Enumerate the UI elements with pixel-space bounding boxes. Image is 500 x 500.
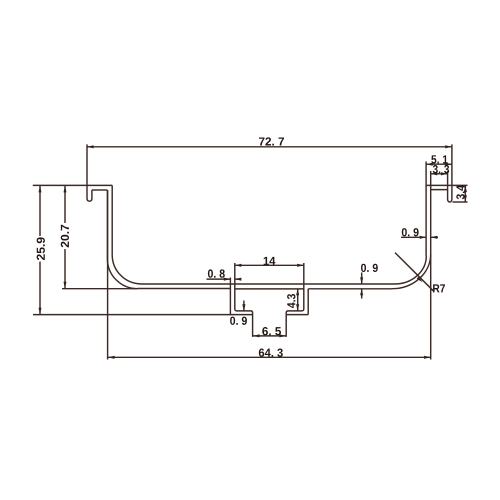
profile outline xyxy=(33,144,468,359)
text 20.7 (rotated) xyxy=(61,225,69,248)
R7 leader xyxy=(395,253,434,292)
4.3 xyxy=(297,289,299,311)
pocket left wall inner face + floor top left + opening left edge (6.5 ext below) xyxy=(235,263,253,337)
14 arrows xyxy=(235,264,242,267)
extension lines xyxy=(33,185,138,288)
web bottom (right of pocket) xyxy=(308,288,392,290)
left wall outer 64.3 extension xyxy=(107,190,109,360)
20.7 xyxy=(64,186,66,289)
3.4 arrows xyxy=(464,185,467,192)
text 5.1 xyxy=(431,155,447,163)
left wall inner face + inner curve xyxy=(112,185,141,284)
0.8 xyxy=(207,278,241,280)
left wall outer face + bottom-left outer curve xyxy=(107,190,137,289)
floor bottom left + 25.9 bottom extension xyxy=(33,314,253,316)
3.3 xyxy=(431,173,448,175)
text 4.3 (rotated) xyxy=(287,294,295,308)
pocket left wall outer face (0.8 ext above) xyxy=(229,278,231,315)
6.5 xyxy=(253,335,286,337)
text 0.9 xyxy=(230,317,247,325)
0.9 web arrows (outside) xyxy=(360,277,363,284)
25.9 xyxy=(39,186,41,314)
0.8 arrows (outside) xyxy=(224,278,231,281)
text 72.7 xyxy=(259,137,284,145)
text 3.3 xyxy=(433,165,449,173)
72.7 arrows xyxy=(87,145,94,148)
3.3 right extension (lip inner face extended up) xyxy=(447,171,449,190)
72.7 xyxy=(87,146,452,148)
text 64.3 xyxy=(259,349,283,357)
5.1 xyxy=(426,163,452,165)
right wall outer face (3.3 ext above + 64.3 ext below) xyxy=(430,171,432,360)
0.9 right-wall arrows (outside) xyxy=(420,236,427,239)
pocket ceiling xyxy=(235,288,304,290)
text 0.9 xyxy=(402,228,419,236)
right wall inner face (with 5.1 extension above) xyxy=(425,162,427,257)
R7 arrow on curve xyxy=(417,276,423,282)
0.9 web xyxy=(361,273,363,299)
5.1 arrows xyxy=(426,163,433,166)
6.5 arrows xyxy=(253,334,260,337)
14 xyxy=(235,264,304,266)
text 25.9 (rotated) xyxy=(37,237,45,260)
64.3 arrows xyxy=(108,356,115,359)
pocket right wall outer face xyxy=(307,289,309,315)
web top xyxy=(142,283,395,285)
3.3 arrows xyxy=(431,172,438,175)
arrowheads xyxy=(39,145,467,359)
text R7 xyxy=(433,284,445,292)
right inner curve xyxy=(395,256,427,284)
dimension texts xyxy=(37,137,465,356)
3.4 xyxy=(464,185,466,202)
text 3.4 (rotated) xyxy=(456,185,464,199)
0.9 floor arrow xyxy=(242,304,245,311)
3.4 lower extension from lip tip xyxy=(453,201,468,203)
4.3 arrows xyxy=(296,289,299,296)
20.7 arrows xyxy=(64,186,67,193)
right groove ceiling xyxy=(431,189,448,191)
left hook cap top xyxy=(87,184,112,186)
25.9 arrows xyxy=(39,186,42,193)
dimension lines xyxy=(40,147,465,357)
text 14 xyxy=(264,257,276,265)
right cap top + 3.4 extension xyxy=(426,184,467,186)
top extension for 25.9/20.7 xyxy=(33,184,87,186)
text 0.8 xyxy=(208,269,225,277)
text 0.9 xyxy=(361,264,378,272)
opening right edge + floor top right + pocket right wall inner (14 ext above) xyxy=(286,263,304,337)
64.3 xyxy=(108,356,431,358)
right outer curve xyxy=(392,254,431,289)
web bottom (left of pocket) xyxy=(137,288,230,290)
0.9 floor xyxy=(243,301,245,311)
floor bottom right xyxy=(286,314,308,316)
0.9 right wall xyxy=(401,236,438,238)
left groove ceiling xyxy=(92,189,108,191)
text 6.5 xyxy=(262,327,281,335)
right lip (outer + rounded tip + inner) with ext above xyxy=(448,144,452,202)
left lip (outer face + rounded tip + inner face) with 72.7 ext above xyxy=(87,144,92,201)
20.7 bottom extension xyxy=(62,288,137,290)
